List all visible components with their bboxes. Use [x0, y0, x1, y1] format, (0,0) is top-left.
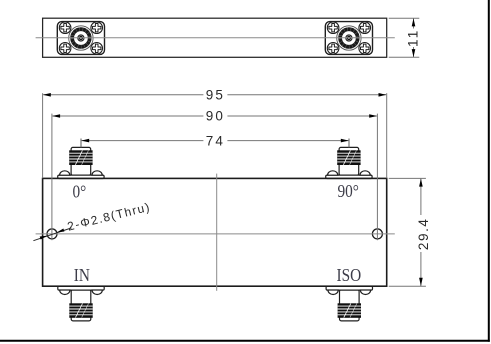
SMA connector, ISO port [326, 286, 372, 321]
svg-text:ISO: ISO [337, 265, 362, 285]
dimension 11 [389, 18, 421, 57]
flange connector right, top view [325, 22, 372, 55]
bottom view horizontal centerline [36, 233, 395, 235]
port label IN [74, 265, 90, 285]
top view body outline [43, 18, 387, 57]
dimension 29.4 [389, 178, 432, 286]
svg-text:29.4: 29.4 [416, 217, 431, 250]
port label ISO [337, 265, 362, 285]
svg-text:11: 11 [406, 29, 421, 47]
svg-text:74: 74 [206, 133, 225, 148]
leader 2-dia2.8 thru holes [33, 200, 152, 241]
mounting hole left [47, 229, 57, 239]
port label 90 degree [338, 181, 359, 201]
port label 0 degree [73, 181, 87, 201]
top view horizontal centerline [36, 37, 395, 39]
SMA connector, 0-degree port [58, 147, 104, 178]
mounting hole right [372, 229, 382, 239]
svg-text:90°: 90° [338, 181, 359, 201]
bottom view vertical centerline [216, 174, 218, 291]
dimension 74 [81, 133, 349, 148]
SMA connector, 90-degree port [326, 147, 372, 178]
svg-text:IN: IN [74, 265, 90, 285]
svg-text:0°: 0° [73, 181, 87, 201]
svg-text:95: 95 [206, 88, 225, 103]
bottom view body outline [43, 178, 387, 286]
flange connector left, top view [57, 22, 104, 55]
dimension 95 [43, 88, 387, 179]
SMA connector, IN port [58, 286, 104, 321]
svg-text:90: 90 [206, 109, 225, 124]
dimension 90 [52, 109, 378, 241]
